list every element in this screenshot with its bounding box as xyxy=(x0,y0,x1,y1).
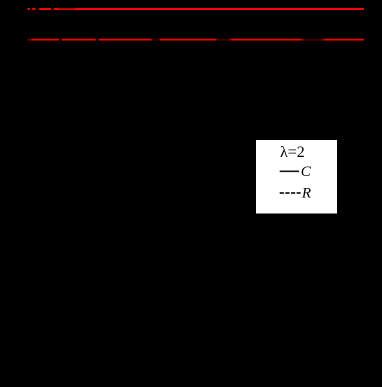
legend sample: solid line C xyxy=(280,170,299,172)
black curve overlaps on upper red line xyxy=(25,7,75,10)
curve R red (lower, occluded by black dashes) xyxy=(27,39,364,41)
svg-text:R: R xyxy=(301,185,311,201)
svg-text:λ=2: λ=2 xyxy=(280,144,305,161)
svg-text:C: C xyxy=(301,164,312,180)
black dash overlaps on lower red line xyxy=(25,38,324,40)
curve C red (solid, upper) xyxy=(27,8,364,10)
legend box xyxy=(256,140,337,214)
legend sample: dashed line R xyxy=(280,192,301,194)
